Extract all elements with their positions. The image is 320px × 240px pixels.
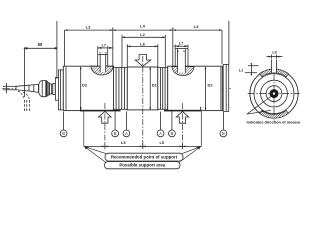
leader to B3 (171, 112, 173, 130)
stub 2 tube white (178, 49, 186, 73)
svg-text:B: B (62, 131, 65, 136)
svg-text:L6: L6 (140, 42, 145, 47)
cable gland nut barrel (39, 80, 48, 96)
leader fan left (85, 147, 107, 163)
top dim line L3 L4 L3 (65, 29, 223, 31)
tall extension right (228, 21, 230, 64)
diameter dim D2 right (205, 67, 207, 110)
cable bend protection cone (16, 84, 39, 92)
circle r8 (266, 86, 282, 102)
pocket 2 hatched (172, 67, 194, 76)
chamfer line (65, 67, 67, 110)
dim L6 (127, 45, 159, 47)
leader to A1 (125, 112, 127, 130)
leader to B2 (114, 112, 116, 130)
circle A2 (157, 130, 164, 137)
collar 2 (158, 68, 168, 110)
down block arrow (135, 55, 151, 67)
svg-text:L5: L5 (159, 140, 164, 145)
gland ring 3 (51, 85, 52, 93)
diameter dim D2 left (80, 67, 82, 110)
body right large section (168, 66, 223, 110)
right end cap (223, 64, 229, 111)
up block arrow 1 (99, 111, 112, 123)
svg-text:50: 50 (38, 42, 43, 47)
center mark vertical at arrow1 (104, 103, 106, 147)
circle B3 (169, 130, 176, 137)
svg-text:D1: D1 (152, 83, 158, 88)
dashed bent-cable ghost lines (24, 100, 26, 112)
leader to B4 (222, 112, 224, 130)
hatched key band at rim top (260, 69, 289, 77)
svg-text:L3: L3 (86, 25, 91, 30)
support band left (81, 110, 121, 112)
svg-text:L5: L5 (121, 140, 126, 145)
center mark vertical middle (142, 56, 144, 147)
hatched key band at rim bottom (260, 110, 289, 118)
dim L2 (122, 36, 165, 38)
outer circle (250, 70, 298, 118)
pocket 1 hatched (91, 66, 113, 75)
svg-text:a: a (105, 51, 107, 54)
svg-text:L2: L2 (140, 32, 145, 37)
dim L7 stub2 (174, 45, 189, 47)
center mark vertical at arrow2 (182, 103, 184, 147)
svg-text:L7: L7 (179, 42, 183, 46)
svg-text:L3: L3 (194, 24, 199, 29)
svg-text:Possible support area: Possible support area (119, 163, 165, 168)
tall extension left (56, 21, 58, 79)
leader fan right (179, 147, 201, 163)
dim stub width (267, 56, 283, 58)
label box recommended (105, 153, 183, 161)
end view crosshair (248, 93, 300, 95)
wire cable lines (3, 85, 16, 87)
dim 50 cable (24, 47, 57, 49)
leader circles B A row (60, 112, 227, 137)
leader line to circle B1 (63, 112, 65, 130)
body middle section (127, 67, 158, 110)
gland ring 2 (50, 84, 52, 94)
dim L7 stub1 (98, 47, 114, 49)
rim circle (254, 74, 294, 114)
circle B1 (60, 130, 67, 137)
body left large section (63, 66, 113, 110)
wire cable end cross (5, 83, 7, 93)
left end cap ring (58, 70, 63, 110)
stub 1 tube white (100, 54, 106, 72)
support band right (164, 110, 201, 112)
svg-text:B: B (171, 131, 174, 136)
svg-text:L7: L7 (102, 43, 106, 47)
svg-text:D2: D2 (82, 83, 88, 88)
hub (270, 89, 279, 98)
svg-text:B: B (222, 131, 225, 136)
dashed bent-cable ghost arc (18, 91, 25, 100)
bottom dim line L5 L5 (84, 145, 202, 147)
label box possible (105, 162, 181, 169)
svg-text:L4: L4 (140, 24, 145, 29)
chamfer line right (220, 67, 222, 110)
band tick left (80, 107, 82, 112)
diameter dim D1 middle (149, 68, 151, 110)
stub 2 (174, 49, 176, 67)
main centerline (2, 87, 232, 89)
circle A1 (123, 130, 130, 137)
connector flange (55, 78, 58, 101)
end view (245, 55, 300, 121)
svg-text:Recommended point of support: Recommended point of support (111, 155, 178, 160)
dim L1 left (250, 64, 252, 76)
gland ring 1 (48, 83, 49, 95)
svg-text:L1: L1 (239, 69, 243, 73)
leader lines direction text (247, 97, 271, 115)
collar 1 (114, 68, 128, 110)
keyway stub top (272, 60, 277, 73)
svg-text:L8: L8 (272, 50, 276, 54)
circle B4 (220, 130, 227, 137)
svg-text:Indicates direction of measure: Indicates direction of measurement (247, 119, 301, 124)
band tick right (200, 107, 202, 112)
leader to A2 (160, 112, 162, 130)
stub 1 (97, 54, 99, 66)
svg-text:a: a (99, 51, 101, 54)
svg-text:A: A (159, 131, 162, 136)
circle r13 (261, 80, 288, 107)
svg-text:B: B (114, 131, 117, 136)
up block arrow 2 (176, 111, 189, 123)
svg-text:D2: D2 (208, 83, 214, 88)
svg-text:A: A (125, 131, 128, 136)
gland ring 4 (53, 83, 55, 94)
circle B2 (112, 130, 119, 137)
